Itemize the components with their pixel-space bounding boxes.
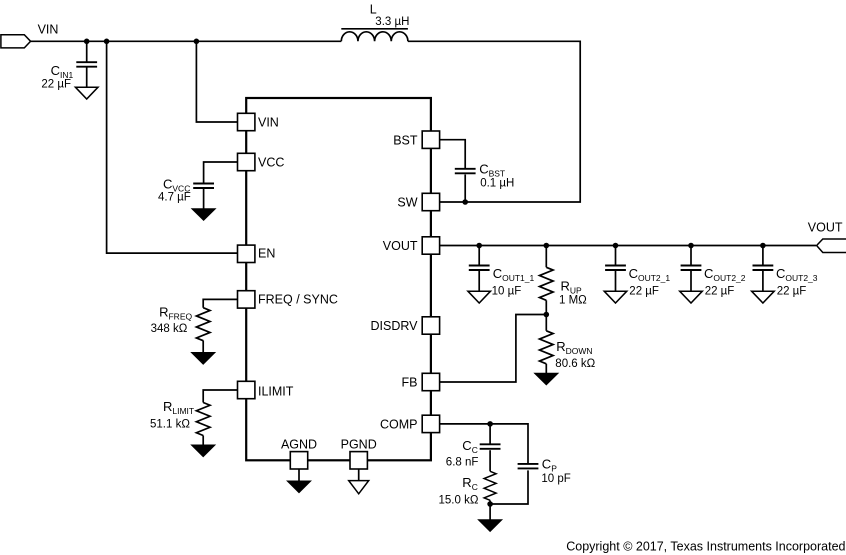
svg-text:3.3 µH: 3.3 µH: [375, 16, 409, 28]
svg-text:RUP: RUP: [561, 278, 583, 295]
svg-text:FREQ / SYNC: FREQ / SYNC: [258, 293, 338, 307]
svg-text:0.1 µH: 0.1 µH: [480, 177, 514, 189]
svg-text:80.6 kΩ: 80.6 kΩ: [555, 358, 595, 370]
svg-text:COUT2_1: COUT2_1: [629, 266, 671, 283]
svg-text:AGND: AGND: [281, 438, 317, 452]
svg-text:RC: RC: [462, 475, 478, 492]
svg-text:6.8 nF: 6.8 nF: [446, 457, 479, 469]
svg-text:PGND: PGND: [341, 438, 377, 452]
svg-text:22 µF: 22 µF: [629, 286, 659, 298]
svg-text:BST: BST: [393, 133, 418, 147]
svg-text:10 µF: 10 µF: [492, 286, 522, 298]
svg-text:51.1 kΩ: 51.1 kΩ: [150, 419, 190, 431]
svg-text:COUT2_3: COUT2_3: [776, 266, 818, 283]
svg-text:22 µF: 22 µF: [777, 286, 807, 298]
svg-text:FB: FB: [402, 376, 418, 390]
svg-text:1 MΩ: 1 MΩ: [559, 294, 587, 306]
svg-text:348 kΩ: 348 kΩ: [151, 323, 188, 335]
svg-text:RDOWN: RDOWN: [556, 339, 592, 356]
svg-text:VIN: VIN: [258, 116, 279, 130]
svg-text:EN: EN: [258, 246, 275, 260]
svg-text:10 pF: 10 pF: [541, 473, 570, 485]
svg-text:VOUT: VOUT: [808, 221, 843, 235]
svg-text:COUT2_2: COUT2_2: [704, 266, 746, 283]
svg-text:CIN1: CIN1: [51, 63, 74, 80]
svg-text:15.0 kΩ: 15.0 kΩ: [439, 495, 479, 507]
svg-text:CP: CP: [542, 457, 557, 474]
svg-text:CC: CC: [462, 438, 478, 455]
svg-text:ILIMIT: ILIMIT: [258, 385, 294, 399]
svg-text:VIN: VIN: [38, 23, 59, 37]
svg-text:22 µF: 22 µF: [705, 286, 735, 298]
svg-text:COMP: COMP: [380, 418, 418, 432]
svg-text:RLIMIT: RLIMIT: [163, 399, 194, 416]
svg-text:RFREQ: RFREQ: [159, 305, 192, 322]
svg-text:DISDRV: DISDRV: [370, 319, 418, 333]
svg-text:Copyright © 2017, Texas Instru: Copyright © 2017, Texas Instruments Inco…: [566, 540, 845, 554]
svg-text:4.7 µF: 4.7 µF: [158, 191, 191, 203]
svg-text:VCC: VCC: [258, 156, 284, 170]
svg-text:22 µF: 22 µF: [41, 79, 71, 91]
svg-text:SW: SW: [397, 196, 417, 210]
svg-text:VOUT: VOUT: [383, 239, 418, 253]
svg-text:COUT1_1: COUT1_1: [493, 266, 535, 283]
svg-text:L: L: [370, 3, 377, 17]
svg-text:CBST: CBST: [479, 161, 505, 178]
